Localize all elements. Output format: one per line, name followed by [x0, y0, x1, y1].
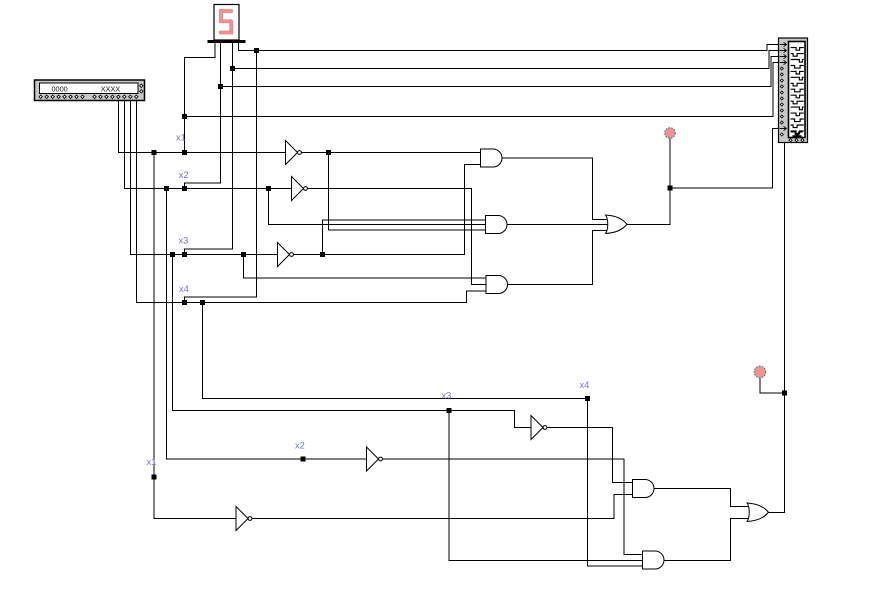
svg-text:x2: x2: [179, 170, 189, 180]
svg-text:x4: x4: [580, 380, 590, 390]
svg-text:x1: x1: [147, 457, 157, 467]
svg-text:x1: x1: [176, 133, 186, 143]
svg-text:x3: x3: [179, 236, 189, 246]
svg-text:XXXX: XXXX: [101, 84, 121, 93]
svg-text:0000: 0000: [52, 84, 68, 93]
svg-text:x3: x3: [442, 391, 452, 401]
svg-text:x4: x4: [179, 284, 189, 294]
svg-text:x2: x2: [295, 441, 305, 451]
